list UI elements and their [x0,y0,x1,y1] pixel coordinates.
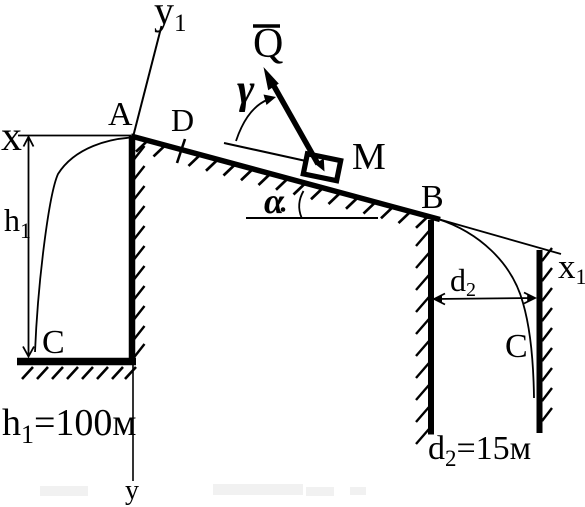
incline A to B [131,136,440,220]
ground line under h1 [17,358,136,366]
wire trajectory A to C (left fall curve) [35,138,133,353]
svg-text:D: D [171,102,194,138]
svg-text:B: B [421,179,444,216]
incline hatching [136,142,427,228]
svg-text:C: C [505,328,528,365]
svg-text:C: C [42,324,65,361]
faint scan smudges bottom [40,484,366,496]
wall below A [129,136,136,364]
wire h1 dimension line [23,137,34,357]
force Q arrowhead [264,67,279,90]
angle gamma arc [236,100,268,142]
svg-text:d2=15м: d2=15м [428,430,531,471]
dimension d2 double arrow [434,293,535,305]
wire y axis [132,137,134,481]
svg-text:Q: Q [253,21,283,67]
ground hatching [22,367,136,379]
wall B hatching [416,231,429,444]
wire gamma reference line [224,143,306,161]
wall below B [428,220,434,435]
right wall hatching [542,248,552,421]
svg-text:α: α [264,181,285,221]
wire alpha horizontal line [246,217,378,219]
svg-text:γ: γ [237,67,255,113]
block M [303,154,340,181]
wire x1 axis [438,219,561,254]
svg-text:y: y [125,475,139,506]
svg-text:x: x [1,114,22,160]
node D tick mark [177,139,185,163]
wire trajectory B to C (right fall curve) [438,219,534,398]
wall A hatching [134,146,145,358]
vector Q overbar [253,24,280,28]
right wall [537,250,543,433]
wire y1 axis [133,26,162,137]
svg-text:M: M [352,136,386,178]
force Q line [270,79,318,164]
wire x-axis line at A [18,135,131,137]
angle alpha arc [299,191,303,218]
svg-text:A: A [108,96,133,133]
